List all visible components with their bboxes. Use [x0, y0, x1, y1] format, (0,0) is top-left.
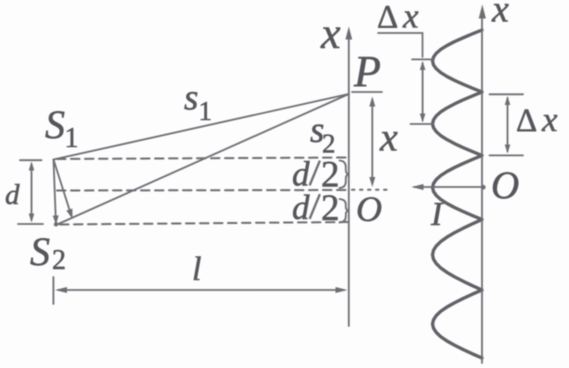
- right dx double arrow: [507, 98, 509, 152]
- svg-text:x: x: [402, 0, 419, 36]
- brace for lower d/2: [340, 199, 350, 223]
- d dimension top tick: [20, 159, 42, 161]
- l dimension left tick: [52, 277, 54, 304]
- svg-text:2: 2: [321, 188, 340, 229]
- svg-text:S: S: [30, 229, 50, 274]
- svg-text:x: x: [320, 9, 341, 58]
- central axis dashed line: [57, 189, 348, 192]
- arrowhead at S2 on barrier: [53, 215, 59, 224]
- svg-text:2: 2: [52, 245, 66, 276]
- slash of upper d/2: [310, 162, 320, 185]
- svg-text:O: O: [491, 164, 519, 207]
- l dimension double arrow: [58, 289, 344, 291]
- svg-text:Δ: Δ: [516, 103, 537, 139]
- svg-text:d: d: [292, 188, 310, 227]
- brace for upper d/2: [340, 161, 350, 189]
- dashed line from S2 to screen: [60, 222, 348, 225]
- origin dot: [481, 185, 486, 190]
- svg-text:1: 1: [199, 96, 213, 126]
- svg-text:s: s: [184, 78, 198, 119]
- svg-text:x: x: [491, 0, 509, 31]
- svg-text:S: S: [45, 102, 65, 147]
- svg-text:O: O: [356, 189, 382, 229]
- svg-text:l: l: [192, 251, 201, 288]
- perpendicular from S1 to ray s2 with arrowhead: [54, 160, 71, 214]
- tick at second peak: [411, 123, 433, 125]
- right dx bottom tick: [490, 154, 524, 156]
- d dimension bottom tick: [18, 223, 43, 225]
- intensity curve: [433, 30, 483, 358]
- svg-text:d: d: [5, 179, 20, 211]
- x measurement double arrow P to O: [371, 103, 373, 180]
- d dimension arrow line: [31, 164, 33, 220]
- svg-text:x: x: [379, 115, 398, 160]
- slit barrier S1-S2: [54, 160, 57, 226]
- right dx top tick: [490, 93, 524, 95]
- svg-text:Δ: Δ: [377, 0, 398, 36]
- svg-text:I: I: [430, 196, 444, 233]
- screen line with x axis arrow: [348, 38, 350, 326]
- ray s2 from S2 to P: [56, 94, 349, 225]
- svg-text:x: x: [541, 100, 558, 139]
- top-left dx connector: [378, 33, 423, 57]
- slash of lower d/2: [310, 195, 320, 218]
- central axis dotted extension beyond screen: [352, 189, 388, 191]
- I axis arrow: [414, 186, 484, 188]
- dx double arrow between peaks: [422, 63, 424, 121]
- dashed line from S1 to screen: [57, 158, 348, 160]
- svg-text:P: P: [353, 47, 381, 96]
- tick at P: [352, 91, 382, 93]
- ray s1 from S1 to P: [54, 94, 349, 160]
- right x axis: [481, 17, 483, 363]
- svg-text:1: 1: [65, 123, 79, 154]
- tick at first peak: [412, 58, 434, 60]
